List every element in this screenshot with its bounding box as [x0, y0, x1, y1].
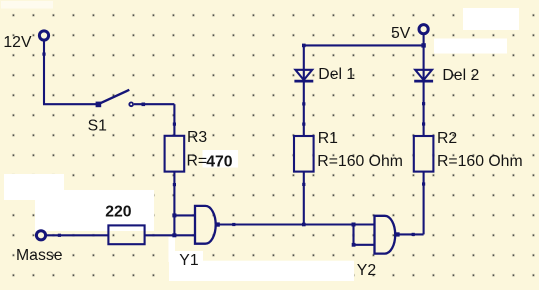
wire Y1 output to Y2 input	[219, 223, 375, 225]
wire 12V down	[43, 42, 45, 105]
svg-text:R=: R=	[187, 152, 208, 169]
NAND gate Y2	[375, 216, 396, 254]
switch S1 lever	[98, 90, 129, 104]
LED Del2 cathode bar	[414, 80, 433, 83]
white patch left-middle right part	[61, 190, 154, 202]
node Y2 output pin	[395, 232, 399, 236]
node on Y2 output wire	[412, 233, 415, 236]
wire R2 to Del2	[423, 81, 425, 136]
node 5V junction	[421, 43, 425, 47]
terminal Masse	[36, 231, 45, 240]
terminal 5V	[419, 25, 428, 34]
svg-text:470: 470	[206, 153, 233, 170]
wire R1 down to node	[303, 172, 305, 225]
wire Del1 to R1	[303, 81, 305, 136]
LED Del2 triangle	[415, 70, 432, 80]
node after switch	[142, 103, 146, 107]
node above R1	[302, 123, 305, 126]
wire down to Del1	[303, 45, 305, 81]
white patch under Y1 label	[175, 251, 203, 261]
svg-text:R2: R2	[437, 130, 457, 147]
node 5V left corner	[302, 44, 306, 48]
LED Del1 cathode bar	[294, 80, 313, 83]
wire Masse to 220	[47, 234, 108, 236]
wire 12V to switch pole	[43, 103, 98, 105]
svg-text:S1: S1	[88, 118, 108, 135]
svg-text:R=160 Ohm: R=160 Ohm	[437, 153, 523, 170]
resistor R2 body	[414, 136, 434, 172]
white patch top-left corner (faint)	[1, 1, 53, 9]
resistor R1 body	[294, 136, 314, 172]
white patch bottom strip	[169, 261, 354, 281]
wire corner down to R3	[173, 104, 175, 136]
wire Y2 output	[399, 233, 424, 235]
node below Del2	[422, 102, 425, 105]
node switch pole	[96, 102, 102, 108]
svg-text:R3: R3	[187, 129, 207, 146]
wire Y2 branch down	[352, 225, 354, 245]
svg-text:220: 220	[105, 204, 132, 221]
node above R2	[422, 122, 425, 125]
svg-text:12V: 12V	[3, 34, 32, 51]
switch S1 throw contact	[129, 102, 133, 106]
wire Del2 up	[423, 45, 425, 81]
white patch behind R3 value	[203, 150, 239, 168]
LED Del1 triangle	[295, 70, 312, 80]
svg-text:Masse: Masse	[16, 247, 63, 264]
node on 12V wire	[42, 53, 45, 56]
terminal 12V	[39, 31, 48, 40]
resistor 220 body	[108, 225, 144, 244]
white patch left-middle upper	[4, 174, 64, 200]
node Y1 bottom junction	[172, 233, 176, 237]
wire stub to Y2 input B	[354, 244, 376, 246]
resistor R3 body	[165, 136, 185, 172]
svg-text:Del 2: Del 2	[442, 67, 479, 84]
svg-text:Y1: Y1	[179, 252, 199, 269]
white patch behind 220 label	[35, 198, 154, 231]
node junction with R1 column	[302, 223, 306, 227]
wire stub to Y1 input A	[174, 214, 196, 216]
white patch top-right lower	[434, 39, 507, 54]
svg-text:5V: 5V	[391, 25, 411, 42]
node on Y1 output wire	[232, 223, 235, 226]
wire 220 to Y1 input B	[145, 234, 196, 236]
node below Del1	[302, 102, 305, 105]
node Y1 output pin	[216, 222, 220, 226]
node below R1	[302, 183, 305, 186]
svg-text:R1: R1	[318, 130, 338, 147]
wire switch to corner	[134, 103, 174, 105]
node Y2 input branch	[352, 223, 356, 227]
svg-text:Y2: Y2	[357, 262, 376, 279]
wire 5V terminal stub	[423, 35, 425, 45]
wire 5V horizontal	[304, 44, 424, 46]
node above R3	[173, 123, 176, 126]
wire up to R2	[423, 172, 425, 235]
wire R3 to bottom junction	[173, 172, 175, 236]
node Y1 input branch	[172, 213, 176, 217]
node below R3	[173, 183, 176, 186]
node on Masse wire	[58, 234, 61, 237]
white patch top-right upper	[463, 8, 519, 30]
node Y2 lower stub	[352, 243, 356, 247]
white patch bottom bar left of Y1	[169, 237, 176, 262]
svg-text:R=160 Ohm: R=160 Ohm	[317, 153, 403, 170]
svg-text:Del 1: Del 1	[318, 66, 355, 83]
node below R2	[422, 182, 425, 185]
NAND gate Y1	[195, 206, 216, 244]
